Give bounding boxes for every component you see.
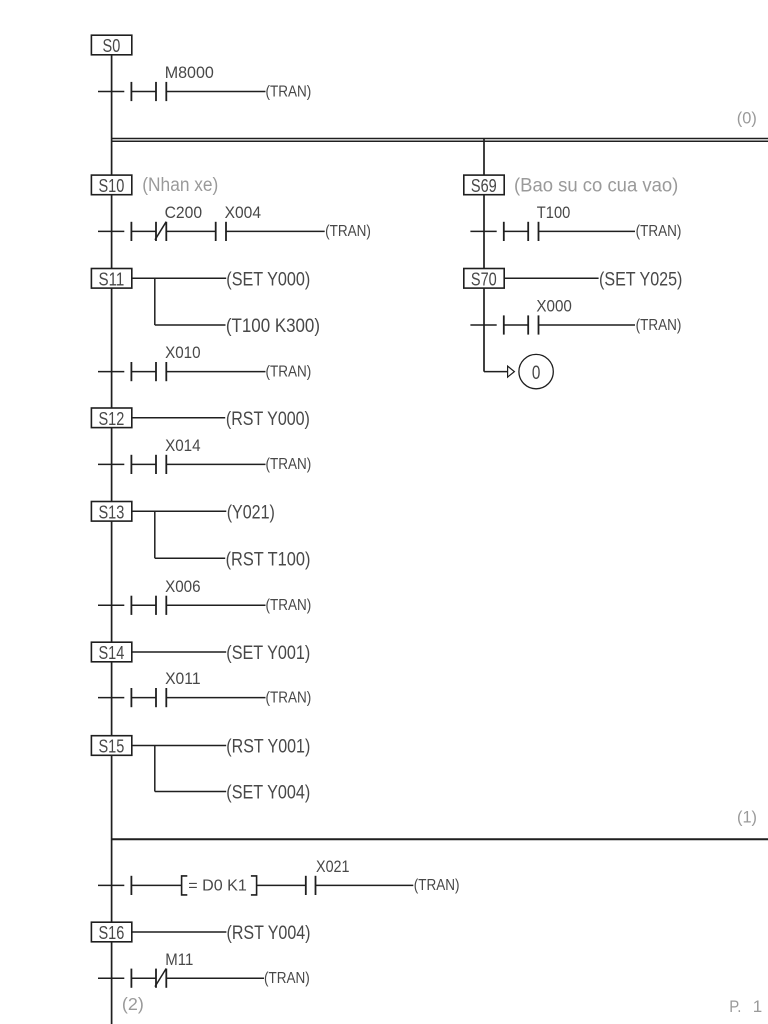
svg-text:(RST Y000): (RST Y000) bbox=[226, 409, 310, 430]
svg-text:S12: S12 bbox=[99, 408, 125, 429]
wire - transition tick bbox=[98, 604, 124, 606]
wire S16 to RST Y004 bbox=[132, 931, 227, 933]
svg-text:(TRAN): (TRAN) bbox=[636, 223, 682, 240]
svg-text:(RST Y004): (RST Y004) bbox=[227, 923, 311, 944]
wire S14 to SET Y001 bbox=[132, 651, 226, 653]
wire bbox=[131, 697, 156, 699]
contact X006 lead-in bar bbox=[130, 596, 132, 615]
svg-text:(0): (0) bbox=[737, 110, 757, 128]
wire - S15 output branch vertical bbox=[154, 746, 156, 792]
contact X021 right bar bbox=[315, 876, 317, 895]
wire to TRAN coil bbox=[539, 230, 636, 232]
wire bbox=[166, 230, 215, 232]
svg-text:(RST T100): (RST T100) bbox=[226, 549, 311, 570]
wire bbox=[257, 884, 306, 886]
contact M11 right bar bbox=[165, 969, 167, 988]
wire bbox=[131, 977, 156, 979]
wire to TRAN coil bbox=[166, 697, 265, 699]
wire - jump elbow horizontal bbox=[484, 371, 507, 373]
svg-text:(2): (2) bbox=[122, 994, 144, 1014]
contact X014 right bar bbox=[165, 455, 167, 474]
contact T100 lead-in bar bbox=[503, 222, 505, 241]
wire - transition tick bbox=[98, 463, 124, 465]
contact M8000 right bar bbox=[165, 82, 167, 101]
wire S12 to RST Y000 bbox=[132, 417, 225, 419]
svg-text:S69: S69 bbox=[471, 175, 497, 196]
jump target circle 0 bbox=[519, 354, 553, 388]
contact X004 right bar bbox=[225, 222, 227, 241]
svg-text:(1): (1) bbox=[737, 809, 757, 827]
compare block [= D0 K1] left bracket bbox=[182, 876, 188, 895]
wire to TRAN coil bbox=[166, 604, 265, 606]
wire to TRAN coil bbox=[166, 91, 265, 93]
svg-text:(TRAN): (TRAN) bbox=[266, 689, 312, 706]
svg-text:M11: M11 bbox=[165, 950, 193, 969]
wire - S13 output branch vertical bbox=[154, 511, 156, 558]
wire - transition tick (compare rung) bbox=[98, 884, 124, 886]
contact X010 lead-in bar bbox=[130, 362, 132, 381]
contact X000 lead-in bar bbox=[503, 315, 505, 334]
convergence single line bbox=[111, 838, 768, 840]
contact M8000 left bar bbox=[155, 82, 157, 101]
contact C200 left bar bbox=[155, 222, 157, 241]
contact X021 left bar bbox=[305, 876, 307, 895]
step box S14 bbox=[91, 642, 131, 662]
svg-text:(T100 K300): (T100 K300) bbox=[226, 316, 320, 337]
wire - right SFC trunk (vertical link) bbox=[483, 138, 485, 372]
svg-text:S10: S10 bbox=[99, 175, 125, 196]
step box S69 bbox=[464, 175, 504, 195]
contact T100 right bar bbox=[538, 222, 540, 241]
wire bbox=[155, 791, 226, 793]
step box S11 bbox=[91, 269, 131, 289]
svg-text:S13: S13 bbox=[99, 501, 125, 522]
wire bbox=[131, 91, 156, 93]
contact X011 lead-in bar bbox=[130, 688, 132, 707]
wire to TRAN coil bbox=[166, 463, 265, 465]
contact X011 left bar bbox=[155, 688, 157, 707]
svg-text:(TRAN): (TRAN) bbox=[414, 877, 460, 894]
wire to TRAN coil bbox=[316, 884, 414, 886]
wire S15 to RST Y001 bbox=[132, 745, 226, 747]
svg-text:X010: X010 bbox=[165, 343, 201, 362]
wire - transition tick (X000 rung) bbox=[470, 324, 496, 326]
wire - S11 output branch vertical bbox=[154, 278, 156, 325]
svg-text:(RST Y001): (RST Y001) bbox=[226, 737, 310, 758]
svg-text:S70: S70 bbox=[471, 268, 497, 289]
svg-text:1: 1 bbox=[753, 997, 762, 1016]
svg-text:(TRAN): (TRAN) bbox=[325, 223, 371, 240]
svg-text:S11: S11 bbox=[99, 268, 125, 289]
svg-text:X006: X006 bbox=[165, 577, 201, 596]
compare block [= D0 K1] right bracket bbox=[251, 876, 257, 895]
wire - left SFC trunk (vertical link) bbox=[111, 55, 113, 1024]
wire to TRAN coil bbox=[539, 324, 636, 326]
svg-text:0: 0 bbox=[532, 362, 541, 384]
svg-text:(TRAN): (TRAN) bbox=[266, 363, 312, 380]
svg-text:(SET Y001): (SET Y001) bbox=[226, 643, 310, 664]
wire bbox=[131, 884, 181, 886]
wire to TRAN coil bbox=[166, 977, 264, 979]
wire - transition tick bbox=[98, 697, 124, 699]
svg-text:(TRAN): (TRAN) bbox=[264, 970, 310, 987]
wire bbox=[131, 371, 156, 373]
step box S16 bbox=[91, 922, 131, 942]
contact X010 left bar bbox=[155, 362, 157, 381]
wire - transition tick (C200 X004 rung) bbox=[98, 230, 124, 232]
wire - transition tick bbox=[98, 371, 124, 373]
step box S12 bbox=[91, 408, 131, 428]
contact M11 left bar bbox=[155, 969, 157, 988]
svg-text:S0: S0 bbox=[103, 35, 121, 56]
svg-text:(TRAN): (TRAN) bbox=[266, 597, 312, 614]
wire bbox=[504, 324, 528, 326]
contact X000 left bar bbox=[527, 315, 529, 334]
divergence double line lower bbox=[111, 140, 768, 142]
svg-text:(SET Y004): (SET Y004) bbox=[226, 783, 310, 804]
contact X000 right bar bbox=[538, 315, 540, 334]
contact X011 right bar bbox=[165, 688, 167, 707]
svg-text:T100: T100 bbox=[537, 203, 571, 222]
wire S70 to SET Y025 bbox=[504, 277, 598, 279]
svg-text:(Nhan xe): (Nhan xe) bbox=[142, 175, 218, 196]
step box S13 bbox=[91, 502, 131, 522]
contact X006 right bar bbox=[165, 596, 167, 615]
wire S11 to SET Y000 bbox=[132, 277, 226, 279]
svg-text:(TRAN): (TRAN) bbox=[636, 317, 682, 334]
contact X014 left bar bbox=[155, 455, 157, 474]
wire S13 to Y021 bbox=[132, 510, 227, 512]
wire - transition tick bbox=[98, 977, 124, 979]
contact X004 left bar bbox=[215, 222, 217, 241]
contact X006 left bar bbox=[155, 596, 157, 615]
wire - transition tick (T100 rung) bbox=[470, 230, 496, 232]
svg-text:X000: X000 bbox=[536, 297, 572, 316]
step box S10 bbox=[91, 175, 131, 195]
step box S0 bbox=[91, 35, 131, 55]
svg-text:C200: C200 bbox=[165, 203, 203, 222]
compare block lead bar bbox=[130, 876, 132, 895]
wire bbox=[504, 230, 528, 232]
divergence double line upper bbox=[111, 138, 768, 140]
wire bbox=[131, 604, 156, 606]
wire bbox=[131, 463, 156, 465]
contact M8000 lead-in bar bbox=[130, 82, 132, 101]
svg-text:P.: P. bbox=[729, 997, 741, 1016]
wire bbox=[131, 230, 156, 232]
wire to TRAN coil bbox=[226, 230, 325, 232]
svg-text:(Y021): (Y021) bbox=[227, 503, 275, 524]
svg-text:(Bao su co cua vao): (Bao su co cua vao) bbox=[514, 175, 678, 196]
contact T100 left bar bbox=[527, 222, 529, 241]
contact C200 lead-in bar bbox=[130, 222, 132, 241]
svg-text:S15: S15 bbox=[99, 736, 125, 757]
step box S70 bbox=[464, 269, 504, 289]
svg-text:M8000: M8000 bbox=[165, 63, 214, 82]
svg-text:(SET Y000): (SET Y000) bbox=[226, 270, 310, 291]
svg-text:S16: S16 bbox=[99, 922, 125, 943]
svg-text:S14: S14 bbox=[99, 642, 125, 663]
svg-text:X004: X004 bbox=[225, 203, 261, 222]
step box S15 bbox=[91, 736, 131, 756]
wire bbox=[155, 557, 225, 559]
wire to TRAN coil bbox=[166, 371, 265, 373]
svg-text:(TRAN): (TRAN) bbox=[266, 83, 312, 100]
contact C200 right bar bbox=[165, 222, 167, 241]
svg-text:X014: X014 bbox=[165, 436, 201, 455]
contact X014 lead-in bar bbox=[130, 455, 132, 474]
svg-text:(SET Y025): (SET Y025) bbox=[599, 270, 682, 291]
contact C200 NC slash bbox=[155, 222, 166, 240]
svg-text:(TRAN): (TRAN) bbox=[266, 456, 312, 473]
contact M11 NC slash bbox=[155, 969, 166, 987]
wire bbox=[155, 324, 226, 326]
jump arrowhead bbox=[508, 366, 515, 377]
svg-text:X011: X011 bbox=[165, 669, 201, 688]
contact M11 lead-in bar bbox=[130, 969, 132, 988]
wire - transition tick (row M8000) bbox=[98, 91, 124, 93]
svg-text:= D0 K1: = D0 K1 bbox=[188, 878, 247, 895]
svg-text:X021: X021 bbox=[316, 857, 350, 876]
contact X010 right bar bbox=[165, 362, 167, 381]
